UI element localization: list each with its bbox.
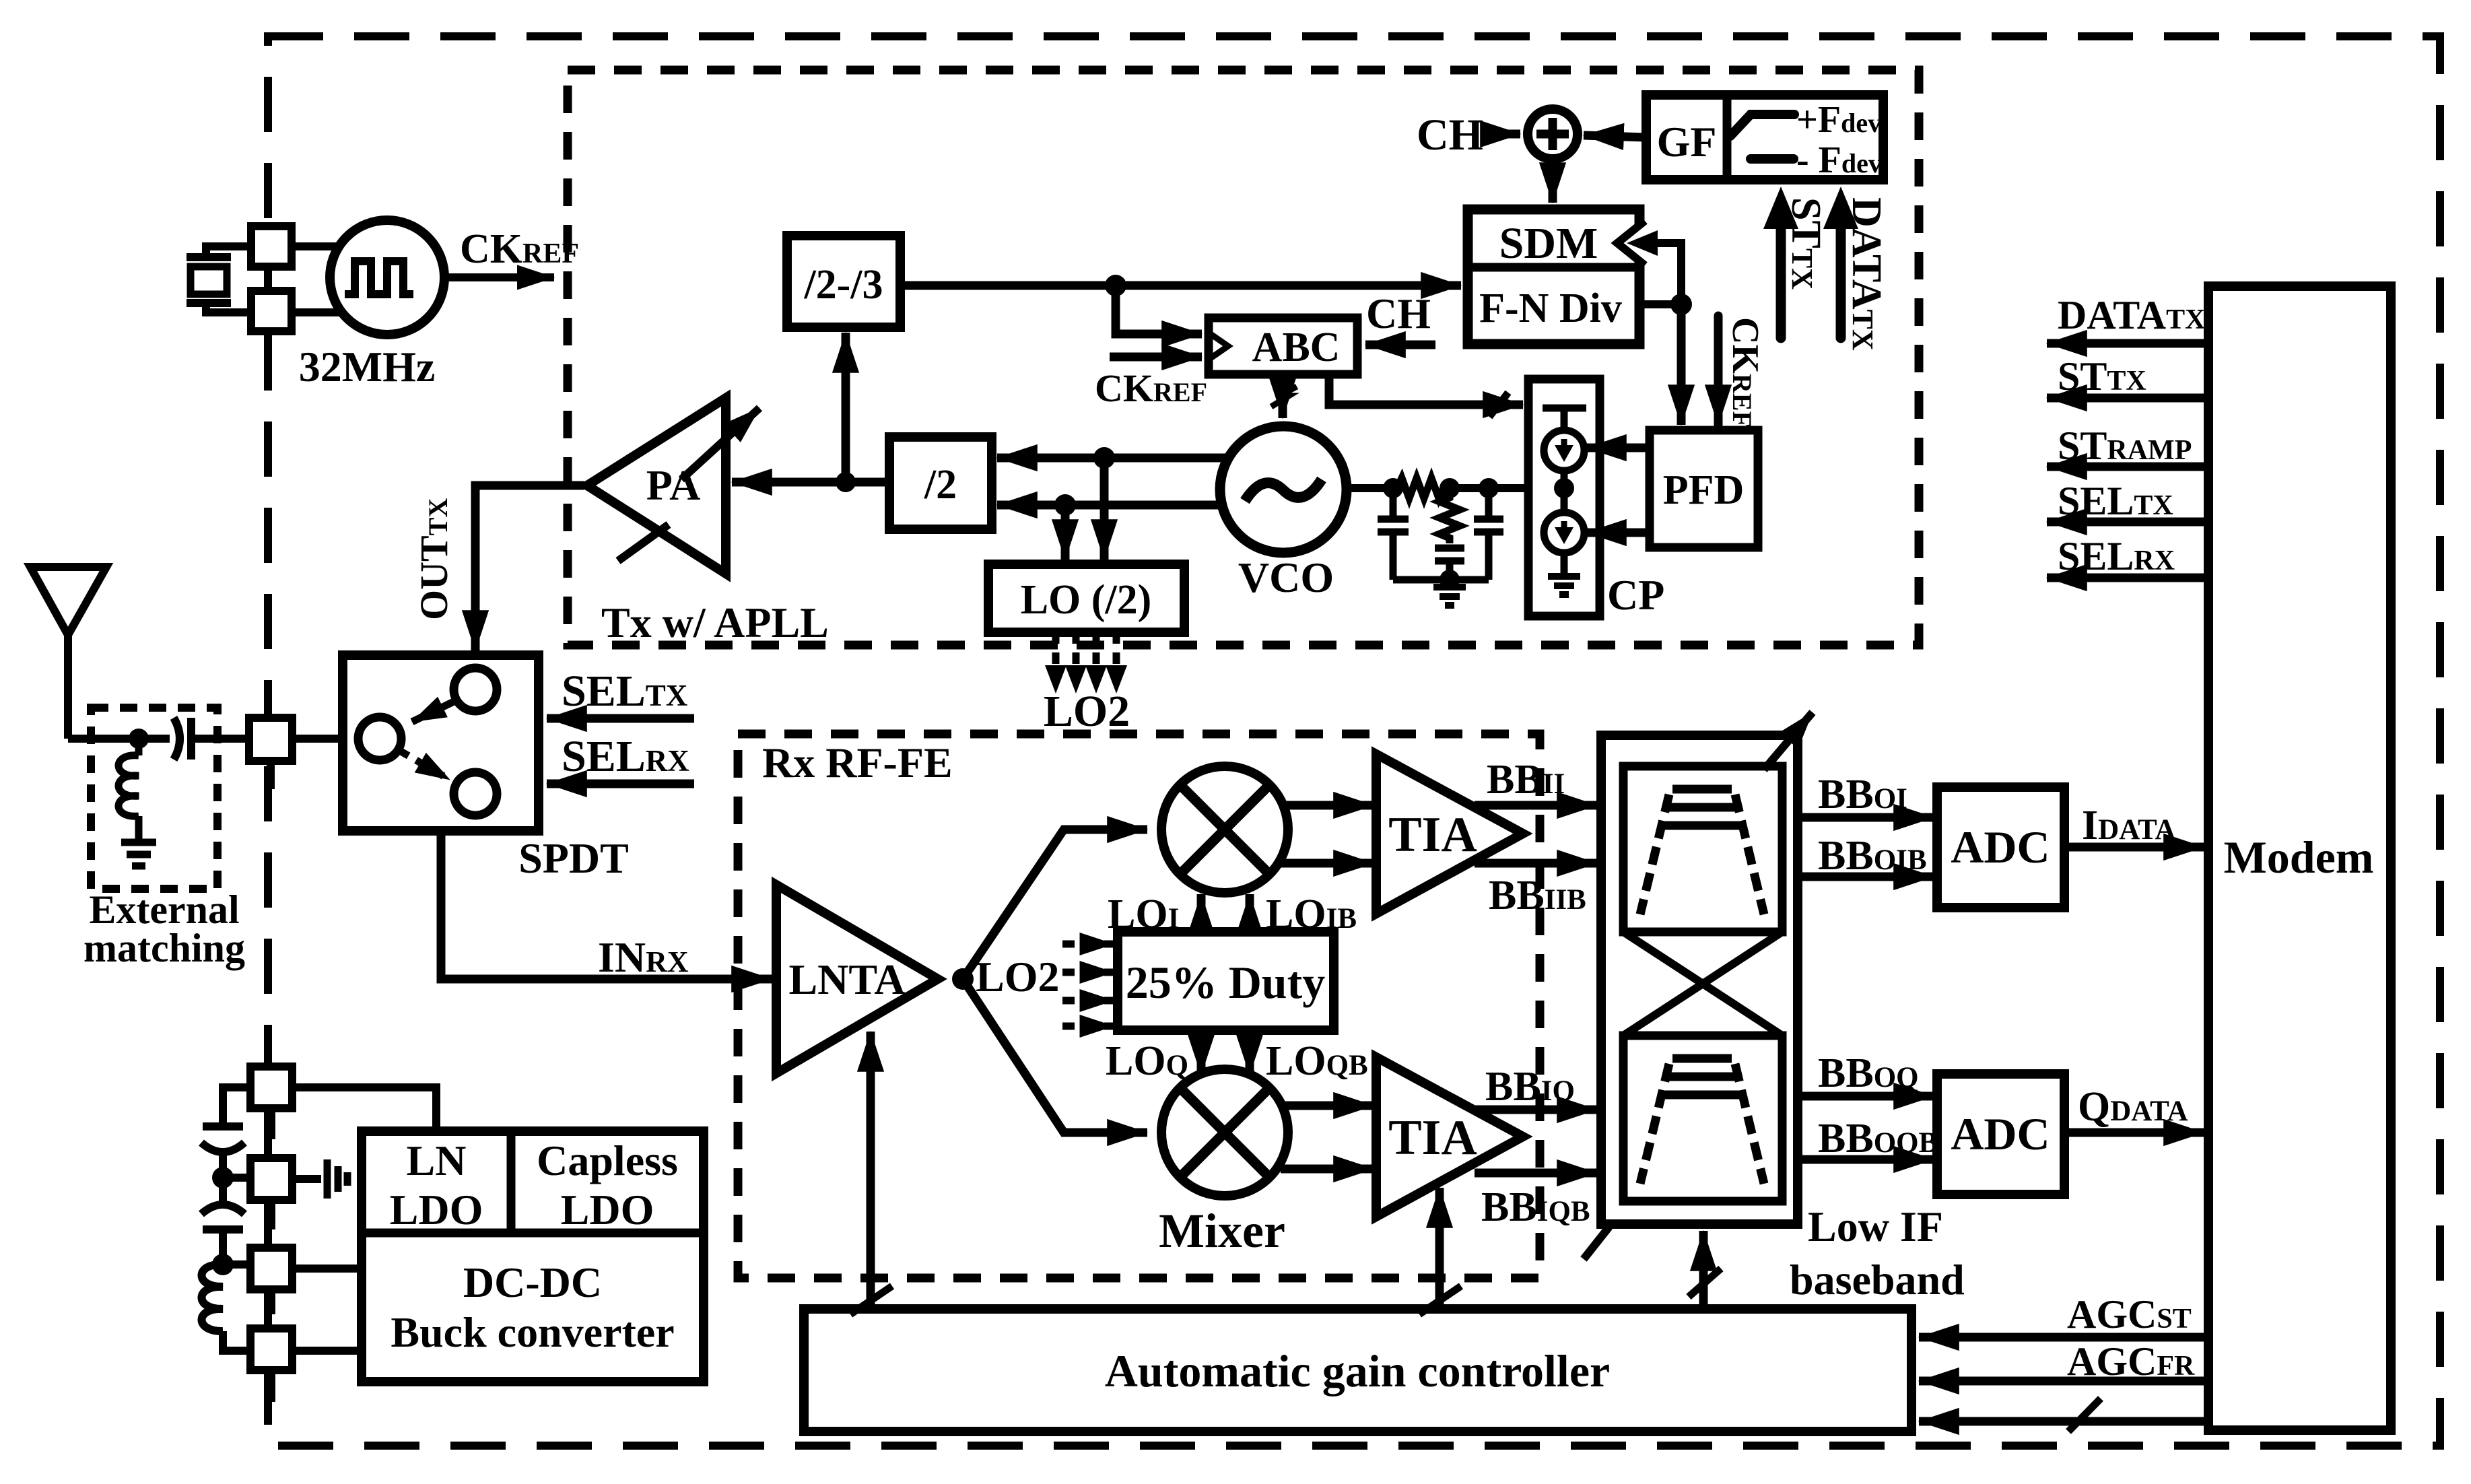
svg-text:baseband: baseband — [1790, 1256, 1965, 1304]
svg-text:Rx RF-FE: Rx RF-FE — [762, 739, 953, 786]
svg-text:LN: LN — [407, 1137, 467, 1184]
wire junction down to ABC input — [1116, 285, 1202, 334]
inductor L1 shunt — [119, 739, 139, 840]
wire SEL_TX arrow into SPDT — [547, 714, 694, 723]
divider LO (/2) — [988, 564, 1184, 632]
ground symbol loop filter — [1433, 587, 1466, 605]
node junction at pin P5 — [212, 1167, 234, 1188]
pin P4 (LDO supply) — [250, 1067, 292, 1108]
wire PFD down output to CP — [1586, 529, 1650, 537]
wire LNTA to mixer I — [963, 830, 1147, 979]
block LDO and DC-DC converter — [362, 1131, 704, 1382]
mixer M2 (Q) — [1161, 1069, 1288, 1196]
amplifier LNTA — [776, 885, 938, 1073]
wire feedback to SDM notch — [1656, 243, 1681, 304]
svg-text:PFD: PFD — [1663, 467, 1745, 513]
svg-text:CP: CP — [1607, 571, 1664, 619]
wire DATA_TX up arrow — [1836, 224, 1846, 338]
wire tap down to LO divider right — [1100, 458, 1109, 560]
svg-text:ABC: ABC — [1252, 325, 1341, 370]
node junction LNTA output — [952, 968, 974, 990]
svg-text:LDO: LDO — [390, 1186, 483, 1234]
wire BB_IQ to baseband — [1475, 1106, 1597, 1114]
svg-text:Modem: Modem — [2224, 832, 2374, 883]
wire CH to summing node — [1481, 130, 1520, 139]
wire CK_REF to ABC input — [1110, 353, 1202, 362]
wire pin P2 to oscillator — [292, 308, 342, 316]
svg-text:32MHz: 32MHz — [299, 343, 436, 391]
filter gain slash — [1584, 1227, 1609, 1259]
wire capacitor to RF pin — [191, 735, 249, 743]
charge pump CP box — [1528, 379, 1600, 616]
pin P1 (crystal pin 1) — [251, 226, 292, 267]
filter icon upper — [1640, 789, 1764, 914]
PA gain slash — [618, 525, 669, 561]
wire loop filter bottom rail — [1393, 576, 1489, 584]
wire AGC to filter gain — [1699, 1231, 1708, 1309]
svg-text:TIA: TIA — [1388, 807, 1477, 863]
wire F-N Div output junction — [1639, 300, 1681, 308]
block ABC — [1209, 318, 1357, 374]
summing node — [1528, 109, 1578, 159]
current source I2 — [1544, 488, 1584, 553]
wire AGC_ST from modem to AGC — [1919, 1333, 2206, 1342]
pin P7 (DC-DC sw) — [250, 1328, 292, 1370]
svg-text:LO2: LO2 — [976, 953, 1059, 1001]
wire IN_RX from SPDT to LNTA — [441, 831, 772, 979]
resistor R1 series — [1397, 478, 1444, 498]
wire AGC to TIA2 gain — [1435, 1188, 1444, 1309]
block automatic gain controller — [804, 1309, 1911, 1431]
SPDT switch U1 — [343, 655, 539, 831]
PA gain arrow — [681, 408, 759, 479]
filter block Low IF baseband — [1601, 735, 1798, 1224]
amplifier TIA1 — [1376, 754, 1523, 914]
svg-text:25% Duty: 25% Duty — [1126, 957, 1326, 1008]
wire BB_IQB to baseband — [1475, 1169, 1597, 1178]
wire mixer M2 to TIA2 upper — [1281, 1102, 1374, 1110]
wire LO_QB to mixer M2 — [1246, 1030, 1254, 1075]
wire DATA_TX from modem — [2047, 339, 2208, 348]
wire pin P6 to DC-DC — [292, 1264, 362, 1273]
decoupling ground at pin P5 — [292, 1175, 321, 1183]
wire BB_OQB to ADC2 — [1798, 1155, 1934, 1164]
wire junction3 to CP output — [1489, 484, 1564, 492]
wire PFD up output to CP — [1586, 444, 1650, 452]
pin stubs — [267, 1108, 275, 1402]
wire mixer M1 to TIA1 upper — [1281, 801, 1374, 810]
svg-text:VCO: VCO — [1238, 553, 1334, 601]
wire I2 to ground — [1561, 553, 1568, 575]
svg-text:Buck converter: Buck converter — [391, 1308, 674, 1356]
wire ST_TX from modem — [2047, 394, 2208, 403]
svg-text:LDO: LDO — [561, 1186, 654, 1234]
crystal X1 — [187, 257, 231, 303]
wire ST_TX up arrow — [1776, 224, 1786, 338]
wire BB_II to baseband — [1475, 801, 1597, 810]
node loop filter junction 2 — [1440, 478, 1460, 498]
svg-text:Mixer: Mixer — [1159, 1204, 1285, 1258]
ground symbol in CP — [1548, 576, 1580, 595]
wire LO_IB to mixer M1 — [1246, 894, 1254, 932]
wire pin P4 to LDO top — [223, 1087, 250, 1125]
svg-text:Capless: Capless — [537, 1137, 678, 1184]
divider /2 — [889, 437, 992, 529]
bus slash on filter gain wire — [1689, 1269, 1721, 1297]
wire BB_OI to ADC1 — [1798, 813, 1934, 822]
Rx RF-FE block dashed boundary — [738, 734, 1540, 1278]
CP supply tee — [1543, 408, 1586, 430]
wire VCO to loop filter — [1347, 484, 1397, 492]
wire LO_I to mixer M1 — [1197, 894, 1206, 932]
svg-text:CH: CH — [1417, 110, 1483, 160]
oscillator VCO — [1220, 426, 1347, 553]
wire I1 to output node — [1561, 471, 1568, 492]
wire CK_REF output arrow — [445, 273, 554, 281]
wire SEL_RX from modem — [2047, 574, 2208, 582]
svg-text:SDM: SDM — [1499, 219, 1598, 268]
wire mixer M2 to TIA2 lower — [1281, 1165, 1374, 1174]
bus slash on AGC bus wire — [2068, 1398, 2101, 1431]
wire AGC bus from modem to AGC — [1919, 1417, 2206, 1426]
wire VCO to /2 upper — [997, 454, 1225, 463]
svg-text:LO2: LO2 — [1044, 687, 1130, 736]
svg-text:/2-/3: /2-/3 — [803, 262, 883, 308]
wire LO_Q to mixer M2 — [1197, 1030, 1206, 1075]
block 25% Duty — [1118, 932, 1334, 1030]
svg-text:ADC: ADC — [1951, 821, 2050, 873]
external matching dashed boundary — [91, 708, 217, 889]
current source I1 — [1544, 430, 1584, 471]
wire LO2 output arrows x4 — [1056, 632, 1116, 671]
resistor R2 and capacitor C3 middle branch — [1435, 488, 1464, 580]
oscillator OSC1 32MHz — [330, 220, 444, 335]
block SDM and F-N Div — [1468, 209, 1645, 344]
wire F-N Div to PFD — [1677, 304, 1686, 425]
antenna ANT — [30, 567, 106, 739]
block GF gaussian filter — [1646, 95, 1883, 180]
wire SEL_TX from modem — [2047, 518, 2208, 527]
svg-text:SPDT: SPDT — [518, 834, 629, 882]
node junction on PA input wire — [836, 472, 856, 492]
wire pin P1 to oscillator — [292, 242, 341, 250]
block Modem — [2208, 286, 2391, 1430]
wire GF to summing node — [1584, 135, 1646, 137]
wire CK_REF to PFD — [1714, 316, 1723, 425]
node CP output junction — [1554, 478, 1574, 498]
wire I_DATA to modem — [2064, 843, 2204, 852]
wire RF pin to SPDT — [292, 735, 343, 743]
wire OUT_TX from PA to SPDT — [475, 485, 584, 650]
svg-text:LNTA: LNTA — [788, 955, 905, 1003]
wire AGC_FR from modem to AGC — [1919, 1377, 2206, 1386]
svg-text:TIA: TIA — [1388, 1110, 1477, 1166]
Tx w/ APLL block dashed boundary — [568, 70, 1919, 645]
wire summing node to SDM — [1549, 159, 1557, 203]
wire BB_OIB to ADC1 — [1798, 873, 1934, 881]
pin P5 (decoupling) — [250, 1158, 292, 1200]
wire tap down to LO divider left — [1061, 505, 1070, 560]
bus slash on LNTA gain wire — [850, 1286, 892, 1314]
wire junction to pin P5 — [223, 1174, 250, 1182]
node loop filter junction 1 — [1383, 478, 1403, 498]
svg-text:LO (/2): LO (/2) — [1021, 577, 1152, 623]
svg-text:matching: matching — [83, 926, 245, 970]
wire VCO to /2 lower — [997, 501, 1223, 510]
wire mixer M1 to TIA1 lower — [1281, 859, 1374, 868]
adc ADC1 — [1937, 787, 2064, 908]
wire ABC to CP with bus slash — [1329, 374, 1523, 405]
node junction lower LO tap — [1054, 494, 1076, 516]
ground symbol under L1 — [121, 842, 156, 866]
capacitor C6 — [201, 1178, 244, 1260]
wire CH to ABC — [1365, 341, 1435, 349]
svg-text:F-N Div: F-N Div — [1479, 285, 1622, 331]
wire BB_OQ to ADC2 — [1798, 1092, 1934, 1101]
pin P3 (RF pin) — [249, 718, 292, 761]
wire LNTA to mixer Q — [963, 979, 1147, 1133]
capacitor C2 left branch — [1378, 488, 1409, 580]
wire pin P2 to crystal — [206, 303, 251, 312]
block PFD — [1650, 430, 1758, 547]
wire ABC to VCO with bus squiggle — [1279, 374, 1287, 418]
pin P2 (crystal pin 2) — [251, 291, 292, 331]
node junction upper LO tap — [1093, 447, 1115, 469]
node junction on divider wire — [1105, 275, 1126, 296]
wire SEL_RX arrow into SPDT — [547, 780, 694, 788]
wire LO2 dashed arrows into duty x4 — [1062, 944, 1114, 1026]
svg-text:CH: CH — [1366, 290, 1431, 337]
wire Q_DATA to modem — [2064, 1128, 2204, 1137]
bus slash on TIA gain wire — [1419, 1286, 1461, 1314]
wire /2 output to PA input — [732, 478, 889, 487]
wire pin P7 to DC-DC — [292, 1347, 362, 1355]
node junction at pin P6 — [212, 1254, 234, 1275]
node bottom rail junction — [1440, 570, 1460, 590]
wire BB_IIB to baseband — [1475, 859, 1597, 868]
inductor L2 — [202, 1264, 251, 1351]
pin P6 (DC-DC in) — [250, 1248, 292, 1289]
svg-text:GF: GF — [1657, 118, 1717, 166]
wire pin P1 to crystal — [206, 246, 251, 257]
wire /2-/3 to F-N Div — [900, 281, 1461, 290]
filter icon lower — [1640, 1058, 1764, 1184]
amplifier TIA2 — [1376, 1057, 1523, 1217]
capacitor C4 right branch — [1474, 488, 1503, 580]
svg-text:Automatic gain controller: Automatic gain controller — [1105, 1345, 1610, 1396]
amplifier PA — [587, 398, 726, 574]
node junction on antenna wire — [129, 729, 149, 749]
wire AGC to LNTA gain — [867, 1032, 875, 1309]
capacitor C5 — [201, 1126, 244, 1178]
svg-text:DC-DC: DC-DC — [463, 1258, 602, 1306]
divider /2-/3 — [787, 236, 900, 327]
wire antenna to matching network — [68, 735, 170, 743]
svg-text:Tx w/ APLL: Tx w/ APLL — [601, 599, 829, 646]
adc ADC2 — [1937, 1074, 2064, 1194]
wire junction to pin P6 — [223, 1260, 250, 1269]
wire junction2 to junction3 — [1450, 484, 1493, 492]
filter gain arrow — [1764, 712, 1813, 770]
capacitor C1 series — [174, 718, 191, 760]
mixer M1 (I) — [1161, 766, 1288, 893]
wire junction up to /2-/3 divider — [842, 333, 850, 482]
wire ST_RAMP from modem — [2047, 463, 2208, 471]
svg-text:ADC: ADC — [1951, 1108, 2050, 1159]
svg-text:/2: /2 — [924, 462, 957, 508]
node loop filter junction 3 — [1479, 478, 1499, 498]
svg-text:Low IF: Low IF — [1808, 1203, 1943, 1250]
